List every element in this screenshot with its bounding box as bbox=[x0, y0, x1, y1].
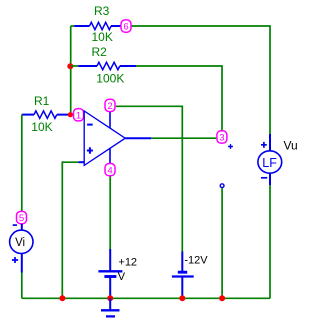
resistor R3 bbox=[71, 22, 122, 29]
wire: output to node 3 bbox=[151, 137, 216, 139]
voltmeter Vu (LF) bbox=[258, 134, 282, 185]
wire: probe stub down to ground rail bbox=[221, 188, 223, 298]
wire: op-amp + input to ground rail bbox=[62, 162, 78, 298]
node 6 bbox=[121, 20, 131, 33]
wire: node 2 to -12V supply rail bbox=[116, 106, 183, 251]
open probe terminal bbox=[220, 184, 224, 188]
wire: node 6 to top-right corner, down right rail to Vu bbox=[131, 26, 270, 135]
svg-text:+12: +12 bbox=[118, 257, 137, 269]
svg-text:100K: 100K bbox=[96, 72, 124, 86]
svg-text:6: 6 bbox=[123, 22, 128, 33]
node 3 bbox=[217, 131, 227, 144]
ground symbol bbox=[101, 298, 120, 316]
svg-text:V: V bbox=[118, 271, 126, 283]
plus polarity mark of Vi bbox=[12, 257, 18, 263]
minus polarity mark of Vi bbox=[13, 224, 17, 226]
svg-text:LF: LF bbox=[262, 156, 277, 170]
node 4 bbox=[105, 164, 115, 177]
junction dot at + input ground tie bbox=[59, 295, 65, 301]
junction dot at R2 tap bbox=[67, 63, 73, 69]
source Vi bbox=[10, 224, 33, 273]
battery V- (-12V) bbox=[172, 252, 194, 299]
svg-text:2: 2 bbox=[107, 101, 112, 112]
svg-text:4: 4 bbox=[107, 165, 113, 176]
wire: R3 corner down to node 1 junction bbox=[70, 26, 72, 115]
svg-text:R1: R1 bbox=[34, 94, 50, 108]
svg-text:3: 3 bbox=[219, 133, 224, 144]
minus polarity mark of Vu bbox=[261, 177, 267, 179]
wire: left rail from R1 down to node 5 bbox=[21, 115, 23, 211]
wire: Vu bottom to bottom-right corner bbox=[269, 185, 271, 298]
pin 2 lead of op-amp bbox=[109, 112, 111, 128]
resistor R1 bbox=[22, 111, 84, 118]
wire: Vi bottom to bottom-left corner bbox=[21, 273, 23, 299]
plus polarity mark of Vu bbox=[261, 142, 267, 148]
junction dot at -12V battery on ground rail bbox=[179, 295, 185, 301]
op-amp U1 bbox=[84, 111, 125, 165]
svg-text:R2: R2 bbox=[92, 45, 108, 59]
node 2 bbox=[105, 99, 115, 112]
wire: bottom ground rail bbox=[22, 297, 270, 299]
plus input pin lead bbox=[79, 161, 85, 163]
resistor R2 bbox=[71, 62, 136, 69]
wire: node 4 down to +12 battery bbox=[109, 177, 111, 250]
svg-text:10K: 10K bbox=[31, 120, 52, 134]
svg-text:10K: 10K bbox=[92, 30, 113, 44]
node 1 bbox=[74, 109, 84, 122]
plus polarity mark at node 3 bbox=[228, 144, 233, 149]
svg-text:Vi: Vi bbox=[15, 237, 25, 249]
svg-text:-12V: -12V bbox=[184, 255, 208, 267]
wire: R2 right to feedback corner down to node 3 bbox=[136, 66, 222, 130]
node 5 bbox=[17, 211, 27, 224]
svg-text:R3: R3 bbox=[94, 4, 110, 18]
svg-text:Vu: Vu bbox=[284, 139, 298, 153]
pin 4 lead of op-amp bbox=[109, 148, 111, 163]
svg-text:1: 1 bbox=[76, 110, 81, 121]
output lead of op-amp bbox=[125, 137, 151, 139]
junction dot at node 1 bbox=[68, 112, 73, 117]
battery V+ (+12) bbox=[98, 249, 122, 298]
junction dot at +12 battery on ground rail bbox=[107, 295, 113, 301]
svg-text:5: 5 bbox=[19, 213, 24, 224]
junction dot at probe stub bbox=[219, 295, 225, 301]
